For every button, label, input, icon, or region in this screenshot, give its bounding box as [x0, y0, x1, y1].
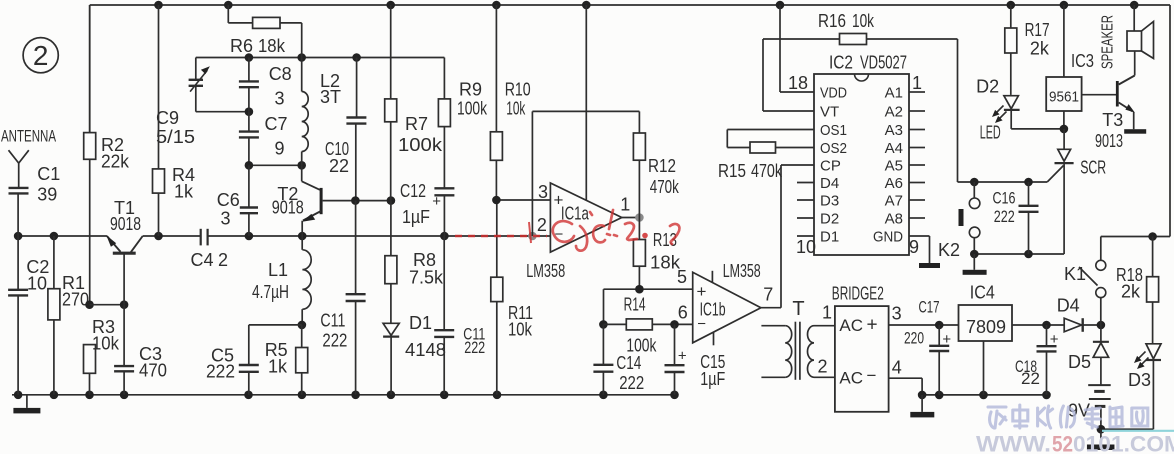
- node R13 label: [650, 230, 681, 273]
- node pin number 4 bridge: [892, 358, 902, 378]
- svg-text:T: T: [792, 298, 804, 320]
- svg-text:10k: 10k: [852, 11, 875, 31]
- ground K2: [963, 254, 987, 275]
- node R3 label: [92, 317, 120, 354]
- svg-text:10: 10: [796, 237, 816, 257]
- wire battery return: [1097, 425, 1154, 434]
- svg-text:10k: 10k: [92, 334, 120, 354]
- svg-text:9: 9: [275, 139, 285, 159]
- node C12 label: [400, 181, 430, 227]
- diode D4: [1064, 318, 1105, 332]
- node R18 label: [1116, 265, 1143, 302]
- node R1 label: [62, 273, 89, 310]
- svg-text:1k: 1k: [268, 357, 288, 377]
- wire bridge output: [889, 321, 959, 330]
- svg-text:3: 3: [892, 304, 902, 324]
- svg-text:SCR: SCR: [1080, 158, 1106, 178]
- svg-text:5: 5: [677, 267, 687, 287]
- svg-text:A6: A6: [885, 175, 903, 192]
- svg-text:ANTENNA: ANTENNA: [1, 127, 56, 146]
- svg-text:100k: 100k: [398, 135, 443, 155]
- node R4 label: [172, 165, 195, 202]
- svg-text:SPEAKER: SPEAKER: [1099, 15, 1116, 69]
- resistor R14: [604, 319, 693, 330]
- node pin number 18: [788, 73, 808, 93]
- resistor R16: [763, 34, 958, 183]
- resistor R9: [438, 58, 450, 189]
- watermark red script: [553, 210, 680, 251]
- svg-text:R7: R7: [405, 114, 428, 134]
- resistor R4: [153, 5, 165, 236]
- ground supply rail: [910, 395, 934, 418]
- node IC2 pin names: [820, 85, 903, 246]
- svg-text:10: 10: [27, 274, 47, 294]
- node R8 label: [409, 250, 444, 288]
- node 9V label: [1068, 401, 1090, 421]
- wire top power rail: [90, 5, 1170, 237]
- svg-text:1µF: 1µF: [700, 369, 725, 389]
- svg-text:222: 222: [464, 338, 485, 357]
- svg-text:39: 39: [37, 184, 57, 204]
- svg-text:D2: D2: [976, 77, 999, 97]
- switch K1: [1079, 237, 1106, 326]
- svg-text:OS1: OS1: [820, 122, 847, 139]
- wire standby feed: [1101, 232, 1170, 241]
- capacitor C6: [240, 165, 258, 236]
- node C1 label: [37, 164, 60, 204]
- svg-text:1k: 1k: [174, 182, 194, 202]
- svg-text:470k: 470k: [650, 177, 680, 197]
- node C11 label: [320, 311, 347, 351]
- svg-text:2k: 2k: [1030, 39, 1050, 59]
- wire IC2 VT line: [763, 39, 814, 111]
- wire T1 base to divider: [90, 300, 129, 309]
- svg-text:52: 52: [1052, 432, 1073, 454]
- wire IC1b pin5 line: [604, 285, 693, 294]
- svg-text:IC2: IC2: [829, 53, 853, 73]
- node C3 label: [139, 344, 167, 381]
- wire bridge negative: [889, 378, 923, 395]
- svg-text:22: 22: [1021, 369, 1040, 388]
- svg-text:100k: 100k: [457, 99, 488, 119]
- wire main signal line: [18, 235, 550, 237]
- svg-text:18: 18: [788, 73, 808, 93]
- node C18 label: [1015, 357, 1040, 388]
- svg-text:R17: R17: [1025, 20, 1050, 40]
- svg-text:1: 1: [620, 195, 630, 215]
- node SPEAKER label: [1099, 15, 1116, 69]
- wire gate line: [958, 178, 1048, 187]
- node bottom rail junctions: [14, 391, 679, 400]
- svg-text:270: 270: [62, 290, 89, 310]
- svg-text:A3: A3: [885, 122, 903, 139]
- node R10 label: [505, 80, 531, 119]
- svg-text:IC3: IC3: [1071, 51, 1094, 71]
- inductor L1: [298, 236, 312, 329]
- svg-text:AC: AC: [839, 316, 863, 335]
- node R9 label: [457, 80, 488, 119]
- node T label: [792, 298, 804, 320]
- resistor R13: [633, 218, 645, 290]
- svg-text:470k: 470k: [751, 161, 783, 181]
- ground IC2 GND: [909, 236, 940, 268]
- wire bottom ground rail: [12, 394, 676, 396]
- svg-text:2: 2: [33, 40, 49, 71]
- svg-text:LM358: LM358: [723, 261, 761, 281]
- svg-text:22k: 22k: [101, 152, 130, 172]
- node C16 label: [993, 189, 1016, 227]
- svg-text:+: +: [678, 347, 687, 364]
- capacitor C10: [346, 58, 366, 201]
- capacitor C12: [432, 188, 454, 236]
- svg-text:222: 222: [619, 373, 644, 393]
- node pin number 7: [763, 284, 773, 304]
- node LED label: [980, 123, 1001, 143]
- node ANTENNA label: [1, 127, 56, 146]
- svg-text:3: 3: [221, 209, 231, 229]
- svg-text:4148: 4148: [405, 340, 446, 360]
- node pin number 3 bridge: [892, 304, 902, 324]
- resistor R5: [296, 325, 308, 395]
- node T2 label: [272, 184, 304, 218]
- node pin number 3: [538, 182, 548, 202]
- node C11 second label: [463, 325, 485, 357]
- node IC4 label: [970, 283, 995, 303]
- capacitor C14: [593, 324, 613, 394]
- wire feedback loop: [528, 111, 639, 240]
- capacitor C11: [346, 201, 366, 395]
- svg-text:2k: 2k: [1121, 282, 1141, 302]
- svg-text:AC: AC: [839, 368, 863, 387]
- svg-text:C11: C11: [320, 311, 345, 331]
- svg-text:C6: C6: [217, 190, 240, 210]
- node pin number 9: [909, 237, 919, 257]
- led D2: [992, 96, 1064, 129]
- pin IC2 D4 stub: [797, 182, 814, 184]
- node C17 label: [904, 298, 940, 348]
- svg-text:A1: A1: [885, 85, 903, 102]
- svg-text:4: 4: [892, 358, 902, 378]
- chip IC3 9561: [1046, 5, 1081, 133]
- capacitor C17: [929, 325, 951, 395]
- resistor R7: [385, 5, 397, 201]
- node LM358 label second: [723, 261, 761, 281]
- svg-text:7809: 7809: [966, 317, 1006, 337]
- ground bottom-left: [13, 395, 40, 414]
- node K1 label: [1064, 264, 1086, 284]
- watermark red dashes: [455, 222, 547, 243]
- node pin number 1 bridge: [822, 303, 832, 323]
- pin IC2 D2 stub: [797, 217, 814, 219]
- svg-text:D2: D2: [820, 211, 839, 228]
- resistor R6: [228, 5, 301, 58]
- svg-text:LED: LED: [980, 123, 1001, 143]
- capacitor C3: [114, 305, 134, 395]
- resistor R15: [727, 142, 814, 153]
- capacitor C1: [9, 188, 29, 236]
- svg-text:VD5027: VD5027: [860, 53, 907, 73]
- svg-text:1µF: 1µF: [402, 207, 430, 227]
- svg-text:T3: T3: [1102, 110, 1123, 130]
- node tuned rail junctions: [245, 53, 361, 62]
- capacitor C8: [239, 58, 259, 112]
- svg-text:3: 3: [538, 182, 548, 202]
- svg-text:222: 222: [322, 331, 347, 351]
- svg-text:C14: C14: [616, 353, 641, 373]
- svg-text:A4: A4: [885, 140, 903, 157]
- node R15 label: [718, 161, 783, 181]
- wire C9 bottom link: [196, 107, 253, 116]
- node L1 label: [252, 260, 289, 302]
- node R6 label: [230, 36, 286, 56]
- node IC1b label: [700, 299, 726, 319]
- node BRIDGE2 label: [832, 283, 884, 303]
- svg-text:+: +: [867, 315, 878, 336]
- svg-text:D3: D3: [1128, 370, 1151, 390]
- svg-text:A2: A2: [885, 104, 903, 121]
- wire R14 loop: [599, 289, 608, 329]
- node C5 label: [206, 346, 235, 382]
- svg-text:R6: R6: [230, 36, 253, 56]
- resistor R2: [84, 5, 96, 305]
- node C7 label: [265, 114, 288, 158]
- pin IC2 D3 stub: [797, 199, 814, 201]
- node signal line junctions: [14, 232, 449, 241]
- node pin number 1 IC2: [912, 73, 922, 93]
- node SCR label: [1080, 158, 1106, 178]
- svg-text:−: −: [867, 366, 877, 385]
- node C15 label: [700, 352, 725, 389]
- node D5 label: [1068, 352, 1091, 372]
- svg-text:D1: D1: [820, 229, 839, 246]
- node R7 label: [398, 114, 443, 155]
- node C10 label: [325, 139, 349, 176]
- svg-text:7.5k: 7.5k: [409, 268, 444, 288]
- svg-text:K2: K2: [938, 240, 960, 260]
- svg-text:C1: C1: [37, 164, 60, 184]
- svg-text:D5: D5: [1068, 352, 1091, 372]
- svg-text:K1: K1: [1064, 264, 1086, 284]
- wire IC1b output to CP: [761, 165, 781, 308]
- transformer T: [761, 322, 835, 380]
- svg-text:9018: 9018: [110, 214, 141, 234]
- pin IC2 address stubs: [909, 92, 925, 218]
- inductor L2: [302, 58, 309, 166]
- node T1 label: [110, 198, 141, 234]
- node R11 label: [508, 303, 533, 340]
- svg-text:C17: C17: [919, 298, 940, 317]
- svg-text:9013: 9013: [1095, 131, 1123, 151]
- svg-text:9561: 9561: [1049, 89, 1079, 106]
- node R17 label: [1025, 20, 1050, 59]
- wire IC4 output: [1012, 321, 1064, 330]
- svg-text:R12: R12: [648, 156, 676, 176]
- node D4 label: [1057, 296, 1080, 316]
- capacitor C5: [239, 325, 259, 395]
- svg-text:9: 9: [909, 237, 919, 257]
- wire K2 bottom link: [970, 250, 1064, 259]
- svg-text:OS2: OS2: [820, 140, 847, 157]
- wire IC2 CP line: [781, 164, 814, 166]
- svg-text:10k: 10k: [508, 320, 533, 340]
- node D2 label: [976, 77, 999, 97]
- svg-text:+: +: [432, 193, 441, 210]
- node C8 label: [269, 64, 292, 108]
- diode D5: [1093, 325, 1109, 385]
- pin IC2 D1 stub: [797, 235, 814, 237]
- svg-text:5/15: 5/15: [156, 127, 195, 147]
- svg-text:6: 6: [678, 303, 688, 323]
- node figure-number circle 2: [23, 38, 58, 73]
- svg-text:18k: 18k: [258, 36, 286, 56]
- node pin number 2 bridge: [818, 357, 828, 377]
- switch K2: [959, 182, 980, 254]
- svg-text:CP: CP: [820, 158, 841, 175]
- wire IC2 OS1 line: [727, 130, 814, 148]
- resistor R12: [633, 111, 645, 217]
- capacitor C15: [665, 324, 687, 394]
- node LM358 label first: [526, 261, 565, 281]
- op-amp U-IC1a: [550, 5, 621, 252]
- ground battery: [1087, 429, 1115, 450]
- svg-text:D3: D3: [820, 193, 839, 210]
- node R16 label: [818, 11, 875, 31]
- capacitor C18: [1037, 325, 1059, 395]
- svg-text:VDD: VDD: [820, 85, 847, 102]
- svg-text:IC4: IC4: [970, 283, 995, 303]
- svg-text:A8: A8: [885, 211, 903, 228]
- transistor T1: [106, 235, 142, 305]
- wire resonant link: [245, 161, 306, 170]
- wire tuned-circuit rail: [196, 57, 445, 59]
- svg-text:2: 2: [218, 250, 228, 270]
- resistor R18: [1147, 237, 1159, 344]
- svg-text:VT: VT: [820, 104, 839, 121]
- node pin number 10: [796, 237, 816, 257]
- node pin number 1: [620, 195, 630, 215]
- svg-text:WWW.: WWW.: [976, 432, 1051, 454]
- svg-text:LM358: LM358: [526, 261, 565, 281]
- svg-text:C16: C16: [993, 189, 1016, 208]
- svg-text:R9: R9: [459, 80, 482, 100]
- svg-text:2: 2: [537, 215, 547, 235]
- node D3 label: [1128, 370, 1151, 390]
- capacitor C11 second: [434, 236, 454, 395]
- node C2 label: [26, 257, 49, 294]
- node T3 label: [1095, 110, 1123, 151]
- bridge rectifier BRIDGE2: [835, 306, 889, 412]
- svg-text:1: 1: [822, 303, 832, 323]
- node D1 label: [405, 313, 446, 360]
- wire IC1a pin3 line: [492, 196, 550, 205]
- node C4 label: [191, 250, 229, 270]
- svg-text:A5: A5: [885, 158, 903, 175]
- wire IC1a output: [622, 213, 644, 222]
- svg-text:BRIDGE2: BRIDGE2: [832, 283, 884, 303]
- op-amp U-IC1b: [693, 271, 761, 346]
- watermark cyan underline: [1102, 430, 1174, 432]
- svg-text:D4: D4: [820, 175, 839, 192]
- svg-text:C9: C9: [156, 108, 179, 128]
- capacitor C9 variable: [189, 58, 210, 112]
- battery 9V: [1088, 385, 1111, 429]
- node IC3 label: [1071, 51, 1094, 71]
- transistor T2: [302, 165, 391, 236]
- wire supply ground rail: [918, 391, 1051, 400]
- ground T3 emitter: [1124, 129, 1146, 134]
- node pin number 6: [678, 303, 688, 323]
- antenna: [9, 150, 29, 188]
- node pin number 5: [677, 267, 687, 287]
- svg-text:0101.COM: 0101.COM: [1073, 432, 1174, 454]
- svg-text:4.7µH: 4.7µH: [252, 282, 289, 302]
- svg-text:3: 3: [275, 88, 285, 108]
- svg-text:9018: 9018: [272, 198, 304, 218]
- capacitor C4: [201, 229, 208, 246]
- node R14 label: [624, 294, 658, 355]
- resistor R3: [84, 300, 96, 394]
- node T2 collector junctions: [351, 196, 395, 205]
- svg-text:10k: 10k: [506, 99, 526, 119]
- svg-text:R15: R15: [718, 161, 746, 181]
- wire IC2 VDD supply: [780, 5, 814, 92]
- node C9 label: [156, 108, 195, 147]
- svg-text:222: 222: [206, 362, 235, 382]
- svg-text:R16: R16: [818, 11, 846, 31]
- svg-text:GND: GND: [873, 229, 903, 246]
- thyristor SCR: [1047, 129, 1073, 254]
- node C14 label: [616, 353, 644, 393]
- watermark chinese text: [988, 405, 1148, 428]
- svg-text:220: 220: [904, 329, 924, 348]
- resistor R10: [490, 5, 502, 200]
- svg-text:222: 222: [994, 207, 1015, 226]
- resistor R11: [491, 200, 503, 395]
- resistor R17: [1005, 5, 1017, 95]
- node R2 label: [101, 135, 130, 172]
- svg-text:C7: C7: [265, 114, 288, 134]
- led D3: [1134, 344, 1161, 429]
- node pin number 2: [537, 215, 547, 235]
- svg-text:L1: L1: [268, 260, 288, 280]
- node R5 label: [265, 340, 288, 377]
- svg-text:C4: C4: [191, 250, 214, 270]
- node K2 label: [938, 240, 960, 260]
- diode D1: [383, 323, 399, 395]
- svg-text:R14: R14: [624, 294, 646, 314]
- regulator IC4 7809: [959, 305, 1013, 395]
- svg-text:R10: R10: [505, 80, 531, 100]
- svg-text:470: 470: [139, 361, 167, 381]
- svg-text:22: 22: [329, 156, 349, 176]
- capacitor C2: [8, 236, 28, 395]
- svg-text:D1: D1: [409, 313, 432, 333]
- speaker: [1127, 5, 1154, 59]
- svg-text:IC1b: IC1b: [700, 299, 726, 319]
- node L2 label: [320, 71, 341, 107]
- watermark url: [976, 432, 1174, 454]
- svg-text:7: 7: [763, 284, 773, 304]
- svg-text:C12: C12: [400, 181, 426, 201]
- node C6 label: [217, 190, 240, 229]
- resistor R8: [385, 201, 397, 324]
- transistor T3: [1082, 51, 1135, 129]
- svg-text:2: 2: [818, 357, 828, 377]
- wire L1-C5 link: [249, 324, 302, 326]
- node IC2 label: [829, 53, 907, 73]
- chip IC2 VD5027 box: [814, 74, 909, 255]
- svg-text:3T: 3T: [320, 87, 341, 107]
